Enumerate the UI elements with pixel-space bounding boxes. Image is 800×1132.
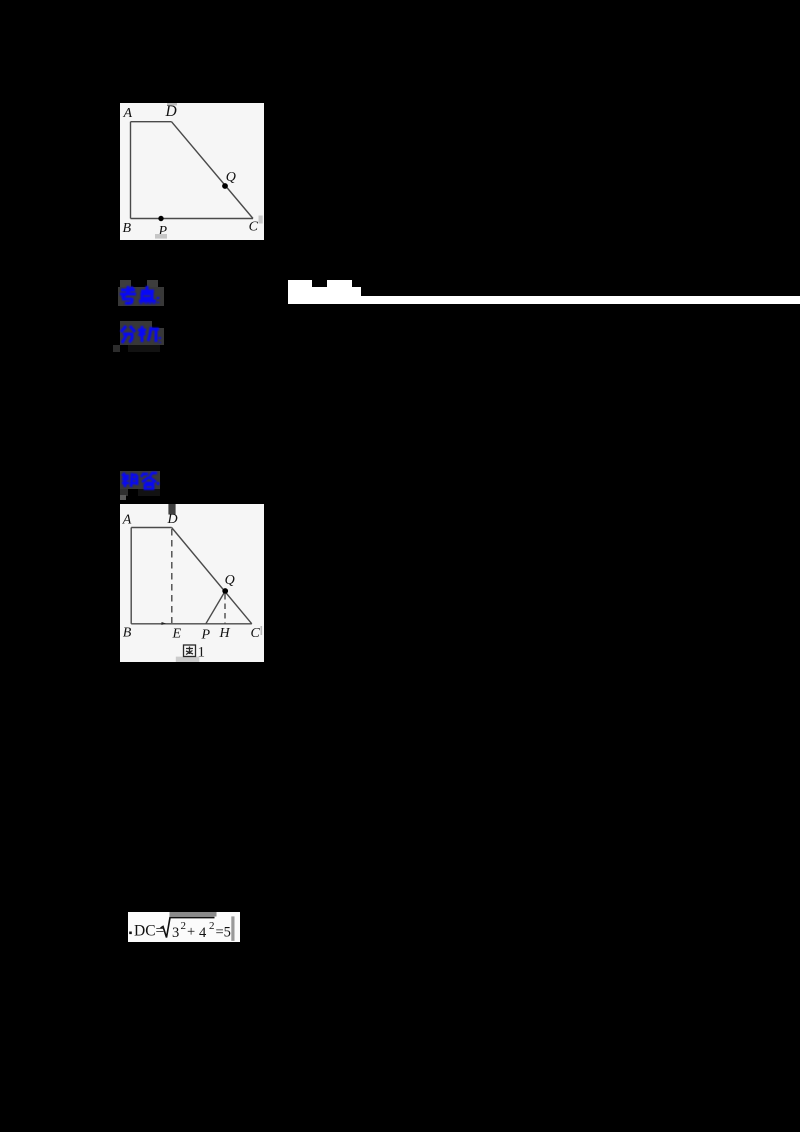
row "kaodian" grey backplate right square bbox=[147, 280, 158, 287]
svg-text:Q: Q bbox=[225, 573, 235, 588]
colon bbox=[159, 337, 162, 343]
caption grey shadow bbox=[176, 656, 200, 661]
glyph dian bbox=[139, 286, 156, 304]
therefore dot bbox=[129, 931, 132, 934]
node Q dot bbox=[222, 588, 228, 594]
svg-text:+: + bbox=[187, 924, 195, 940]
svg-text:=5: =5 bbox=[216, 924, 231, 940]
blue word fenxi bbox=[119, 324, 161, 345]
grey strip top bbox=[170, 912, 217, 917]
wire bottom BC bbox=[131, 218, 254, 220]
glyph xi bbox=[138, 326, 159, 342]
row "fenxi" dark mark lower-left bbox=[113, 345, 121, 353]
svg-text:C: C bbox=[251, 625, 261, 640]
tick on BC bbox=[162, 622, 167, 625]
row "kaodian" grey backplate main bbox=[118, 287, 164, 306]
white panel background bbox=[120, 504, 264, 662]
blue word kaodian bbox=[119, 284, 161, 306]
glyph kao bbox=[120, 286, 136, 303]
row "fenxi" grey backplate lower-right bbox=[152, 328, 164, 345]
grey cursor bar bbox=[231, 916, 234, 941]
formula box bbox=[128, 912, 240, 942]
svg-text:4: 4 bbox=[199, 925, 207, 941]
svg-text:P: P bbox=[201, 627, 211, 642]
wire side AB bbox=[130, 122, 132, 219]
glyph jie bbox=[122, 473, 137, 487]
svg-text:DC=: DC= bbox=[134, 922, 164, 939]
dark handle above D bbox=[168, 504, 175, 515]
svg-text:C: C bbox=[249, 220, 259, 235]
svg-text:Q: Q bbox=[226, 170, 236, 185]
svg-text:H: H bbox=[219, 626, 231, 641]
glyph da bbox=[141, 472, 157, 489]
wire PQ bbox=[206, 591, 225, 624]
dashed DE bbox=[171, 529, 173, 623]
svg-text:A: A bbox=[123, 106, 133, 121]
wire side AB bbox=[130, 527, 132, 623]
white panel bbox=[128, 912, 240, 942]
row "fenxi" grey backplate upper bbox=[120, 321, 153, 345]
node Q dot bbox=[222, 183, 228, 189]
svg-text:2: 2 bbox=[209, 920, 215, 932]
artifact right of C bbox=[261, 626, 263, 635]
row "jieda" grey backplate bbox=[120, 471, 160, 490]
white blob notch filler bbox=[312, 287, 327, 297]
wire slant DC bbox=[172, 122, 254, 219]
svg-text:3: 3 bbox=[172, 925, 179, 941]
svg-text:D: D bbox=[165, 103, 177, 120]
artifact square above figure 2 top-left bbox=[120, 495, 126, 500]
colon bbox=[157, 297, 160, 303]
comma bbox=[157, 482, 160, 485]
row "jieda" faint strip below bbox=[138, 489, 160, 496]
artifact right of C bbox=[259, 216, 263, 224]
row "fenxi" faint strip below bbox=[128, 345, 160, 352]
wire bottom BC bbox=[131, 622, 252, 624]
white underline bar to page edge bbox=[288, 296, 800, 305]
figure box 1 (trapezoid ABCD with P,Q) bbox=[120, 103, 264, 240]
white blob tall block 2 bbox=[327, 280, 352, 297]
row "kaodian" grey backplate left square bbox=[120, 280, 131, 287]
white blob tall block 1 bbox=[288, 280, 312, 297]
svg-text:B: B bbox=[123, 625, 132, 640]
wire slant DC bbox=[172, 527, 252, 623]
caption tu glyph bbox=[184, 645, 196, 657]
grey smudge above D bbox=[167, 103, 177, 106]
wire top AD bbox=[131, 526, 171, 528]
row "jieda" grey mark below-left bbox=[120, 489, 128, 496]
figure box 2 (trapezoid with E,P,H and caption) bbox=[120, 504, 264, 662]
node P dot bbox=[158, 216, 163, 221]
svg-text:A: A bbox=[122, 512, 132, 527]
white panel background bbox=[120, 103, 264, 240]
radical sign bbox=[161, 917, 215, 937]
svg-text:D: D bbox=[167, 511, 178, 526]
svg-text:2: 2 bbox=[181, 920, 187, 932]
glyph fen bbox=[121, 326, 135, 343]
dashed QH bbox=[224, 594, 226, 624]
svg-text:E: E bbox=[172, 626, 182, 641]
blue word jieda bbox=[120, 471, 160, 490]
svg-text:1: 1 bbox=[198, 644, 206, 660]
white blob step bbox=[352, 287, 361, 297]
wire top AD bbox=[131, 121, 172, 123]
artifact below P bbox=[155, 234, 167, 239]
svg-text:B: B bbox=[123, 221, 132, 236]
